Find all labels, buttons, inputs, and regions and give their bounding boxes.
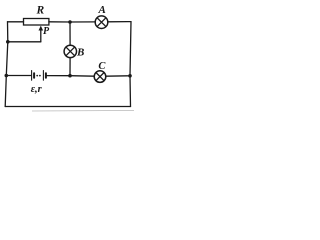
battery middle dots bbox=[36, 75, 38, 77]
node: junction of battery row on left vertical bbox=[5, 74, 9, 78]
wire: bottom loop bbox=[5, 106, 130, 108]
wire: lamp A to top-right corner bbox=[108, 21, 131, 23]
wire: left vertical to battery bbox=[6, 75, 31, 77]
svg-text:ε,r: ε,r bbox=[31, 84, 43, 95]
resistor R (rheostat body) bbox=[24, 19, 49, 26]
wire: B branch lower (lamp B to middle junction) bbox=[69, 58, 71, 76]
node: junction of B branch on top wire bbox=[68, 20, 72, 24]
battery cell 1 short plate bbox=[33, 73, 35, 78]
lamp A bbox=[95, 16, 108, 29]
svg-text:R: R bbox=[36, 5, 45, 17]
lamp C bbox=[94, 71, 106, 83]
battery cell 2 long plate bbox=[42, 71, 44, 81]
wire: left vertical (top corner to bottom-left corner) bbox=[5, 22, 8, 107]
wire: battery to middle junction to lamp C bbox=[47, 75, 94, 78]
wire: lamp C to right vertical bbox=[106, 75, 130, 77]
wire: right vertical (top corner to bottom-right corner) bbox=[130, 22, 131, 107]
node: junction of B branch on battery row bbox=[68, 74, 72, 78]
node: junction of C row on right vertical bbox=[128, 74, 132, 78]
wire: top-left corner to resistor left end bbox=[8, 21, 24, 23]
wire: B branch upper (top junction to lamp B) bbox=[69, 22, 71, 45]
wire: resistor right end to lamp A bbox=[49, 21, 95, 23]
slider arrow P (wiper) bbox=[39, 26, 44, 42]
node: junction of slider wire on left vertical bbox=[6, 40, 10, 44]
battery cell 1 long plate bbox=[31, 71, 33, 81]
svg-text:B: B bbox=[76, 47, 84, 59]
svg-text:C: C bbox=[98, 61, 106, 72]
wire: slider wire from left vertical to arrow bbox=[8, 41, 41, 43]
lamp B bbox=[64, 45, 76, 57]
svg-text:P: P bbox=[43, 26, 50, 37]
svg-text:A: A bbox=[98, 4, 106, 16]
battery cell 2 short plate bbox=[45, 73, 47, 78]
scan artifact: faint line below bottom wire bbox=[32, 110, 134, 113]
